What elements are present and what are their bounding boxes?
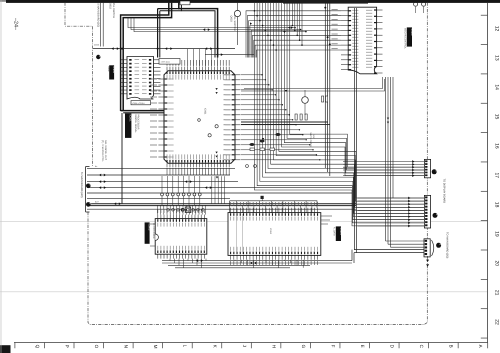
svg-text:IC905: IC905 <box>112 66 115 73</box>
CN3 feed wires <box>354 8 434 256</box>
svg-text:IC902: IC902 <box>410 29 413 36</box>
svg-text:G: G <box>301 345 306 349</box>
svg-text:Q: Q <box>35 345 40 349</box>
board outline (dash-dot) <box>65 3 427 325</box>
arrow under IC901 <box>216 177 218 179</box>
svg-text:M: M <box>153 345 158 349</box>
svg-text:(7), V SERVO CTRL: (7), V SERVO CTRL <box>101 140 104 162</box>
svg-text:12: 12 <box>494 26 500 32</box>
wire pair into IC901 top-left <box>158 9 160 58</box>
svg-text:IC904: IC904 <box>339 228 342 235</box>
svg-text:MECHA CONTROL: MECHA CONTROL <box>404 28 407 50</box>
wire thick bus L2 <box>123 3 171 111</box>
small parts mid <box>246 148 275 167</box>
svg-text:Q903: Q903 <box>230 16 233 23</box>
wire IC903 left links <box>148 224 155 246</box>
transistor Q903 symbol <box>234 3 240 45</box>
svg-text:To MAIN BOARD (2/2): To MAIN BOARD (2/2) <box>80 172 83 198</box>
svg-text:IC903: IC903 <box>147 223 150 230</box>
wire thick bus L3 <box>158 3 218 58</box>
svg-text:IC901: IC901 <box>129 115 132 122</box>
svg-text:18: 18 <box>494 202 500 208</box>
svg-text:IC901: IC901 <box>204 108 207 115</box>
node circle CN1 <box>432 169 438 174</box>
svg-text:S MAIN BOARD (2/2): S MAIN BOARD (2/2) <box>97 3 100 27</box>
op IC902 mecha control body+pins <box>341 7 383 74</box>
bus tiny labels <box>95 165 100 204</box>
node circle CN2 <box>433 213 439 218</box>
wire trio y28-32 across top <box>128 18 307 33</box>
wire long verticals near IC902 <box>324 3 331 176</box>
svg-text:H: H <box>271 345 276 348</box>
op IC904 chip body+pins <box>228 202 321 265</box>
svg-text:13: 13 <box>494 55 500 61</box>
svg-text:1 MT 4xxx: 1 MT 4xxx <box>161 61 170 64</box>
parts near IC902 bottom <box>295 96 328 120</box>
svg-text:20: 20 <box>494 261 500 267</box>
label To MAIN BOARD (2/2) left <box>80 172 83 198</box>
label TO MAIN BOARD (2/2) right <box>445 232 448 258</box>
svg-text:PLL SWITCH: PLL SWITCH <box>233 16 236 31</box>
wire bundle top-bar to right connectors <box>254 3 424 226</box>
svg-text:14: 14 <box>494 84 500 90</box>
label box IC904 <box>332 226 341 241</box>
label TO DISPLAY BOARD <box>442 179 445 204</box>
svg-text:J: J <box>242 345 247 347</box>
node circle 1 left of RAM <box>94 44 101 60</box>
svg-text:FL VFD DRIVE: FL VFD DRIVE <box>152 223 155 239</box>
node circle 1 lower <box>86 202 91 207</box>
svg-text:E: E <box>360 345 365 348</box>
wire thick bus to IC901 <box>121 111 164 113</box>
IC901 inner marks <box>198 88 219 157</box>
svg-text:MUTE DRIVE: MUTE DRIVE <box>309 133 312 148</box>
svg-text:FL DATA: FL DATA <box>332 227 335 236</box>
svg-text:15: 15 <box>494 114 500 120</box>
label MUTE DRIVE <box>309 133 315 148</box>
connector CN2 to display board lower <box>424 195 430 228</box>
label Q903 PLL SWITCH <box>230 16 236 31</box>
svg-text:22: 22 <box>494 319 500 325</box>
svg-text:3.5V: 3.5V <box>312 135 315 140</box>
page number -24- <box>13 18 19 30</box>
wire left bus bundle to MAIN BOARD <box>86 167 356 213</box>
svg-text:PROCESSOR: PROCESSOR <box>137 114 140 130</box>
node circle 2 <box>86 184 91 189</box>
IC904 inner text <box>237 214 273 254</box>
svg-text:IC905 LC3564: IC905 LC3564 <box>132 102 144 105</box>
wire thick bus L1 <box>121 3 169 111</box>
resistor/cap row under IC901 <box>161 176 202 205</box>
svg-text:L: L <box>183 345 188 348</box>
svg-text:S902: S902 <box>109 3 112 9</box>
op IC903 chip body+pins <box>155 209 207 259</box>
wire horizontal y48 with flow arrows <box>93 47 235 50</box>
svg-text:–24–: –24– <box>13 18 19 30</box>
wires IC901 and IC904 to bus <box>212 176 312 212</box>
svg-text:IC904: IC904 <box>269 228 272 235</box>
wire y54 with arrows <box>205 53 254 56</box>
connector CN1 to display board <box>424 159 430 177</box>
svg-text:PLL SWITCH: PLL SWITCH <box>112 3 115 18</box>
IC902 bottom loop wires west <box>241 77 385 91</box>
small box on top bar <box>180 1 190 5</box>
label box IC901 DIGITAL SIGNAL PROCESSOR <box>125 114 140 138</box>
wires into IC903 top <box>157 205 205 215</box>
wire bus drop to lower bus <box>121 113 123 204</box>
label S902 PLL SWITCH <box>109 3 115 18</box>
svg-text:B: B <box>449 345 454 348</box>
wire bus under bottom ICs <box>162 250 354 268</box>
IC905 RAM chip <box>121 57 161 105</box>
svg-text:N: N <box>124 345 129 348</box>
svg-text:DIGITAL SIGNAL: DIGITAL SIGNAL <box>134 114 137 133</box>
svg-text:21: 21 <box>494 290 500 296</box>
label S MAIN BOARD (2/2) vertical <box>97 3 104 47</box>
wire stubs top-bar to links <box>292 3 303 46</box>
label text V SERVO / DIGITAL OUT <box>101 140 107 162</box>
wire loop over IC904 <box>230 196 317 213</box>
svg-text:RAM: RAM <box>107 66 110 71</box>
top circles right of IC902 <box>414 2 426 13</box>
continuation arrow down <box>426 256 429 267</box>
IC901 top small block <box>159 59 180 65</box>
svg-text:DATA: DATA <box>94 44 100 47</box>
svg-text:17: 17 <box>494 172 500 178</box>
transistor Q mid1 <box>302 90 309 115</box>
svg-text:19: 19 <box>494 231 500 237</box>
junction top-left <box>121 48 219 50</box>
fan flow arrows <box>250 22 287 140</box>
label box IC905 RAM <box>107 65 115 79</box>
svg-text:TO MAIN BOARD (2/2): TO MAIN BOARD (2/2) <box>445 232 448 258</box>
crystal X901 <box>181 207 190 213</box>
svg-text:P: P <box>65 345 70 348</box>
label box IC903 <box>145 222 155 243</box>
node circle CN3 <box>436 243 442 248</box>
svg-text:TO DISPLAY BOARD: TO DISPLAY BOARD <box>442 179 445 204</box>
cap blobs on fan <box>249 133 280 146</box>
wire IC901-top to IC902-left links <box>246 9 341 57</box>
CN2 wires with arrows <box>358 197 425 228</box>
CN1 wire arrows <box>343 160 424 177</box>
svg-text:F: F <box>330 345 335 348</box>
connector CN3 to main board <box>424 239 430 257</box>
svg-text:D/A, DIGITAL OUT: D/A, DIGITAL OUT <box>104 140 107 161</box>
svg-text:O: O <box>94 345 99 349</box>
wire fan IC901 right side <box>241 74 330 160</box>
svg-text:16: 16 <box>494 143 500 149</box>
label box IC902 <box>404 27 413 49</box>
bus flow arrows <box>99 174 212 206</box>
wire IC904 right links <box>321 216 332 224</box>
op IC901 digital signal processor body+pins <box>150 49 241 175</box>
IC902 bottom drop wires <box>386 77 394 247</box>
